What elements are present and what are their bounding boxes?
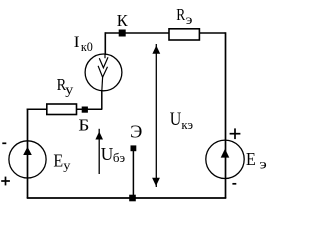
wire base horizontal from resistor Rу to vertical stub [77,108,103,110]
voltage source Eу circle [9,141,46,178]
voltage source Eу label [53,151,71,173]
wire from current source bottom down to base wire [101,91,103,110]
voltage source Eу minus sign [2,142,6,144]
node К junction square [119,30,126,37]
voltage arrow U_кэ (double headed vertical) [152,44,160,187]
bottom rail junction square [129,195,136,202]
resistor Rу label [57,75,74,98]
svg-text:Б: Б [78,116,89,135]
node Э label [130,122,142,142]
voltage source Eу arrow (filled, up) [23,147,32,155]
wire left vertical (through Eу down to bottom rail) [27,109,29,199]
svg-text:к0: к0 [81,39,93,54]
svg-text:кэ: кэ [181,117,193,132]
svg-text:К: К [117,11,129,30]
svg-text:I: I [74,34,80,51]
svg-text:E: E [53,151,63,171]
svg-text:E: E [246,149,256,169]
node Б junction square [82,107,88,113]
wire from left rail to resistor Rу [27,108,47,110]
voltage source Eэ label [246,149,267,173]
resistor Rэ [169,29,199,40]
node Э terminal square [131,145,137,151]
current source I_к0 circle [85,54,122,91]
voltage source Eэ circle [206,140,244,178]
voltage source Eу plus sign [1,177,10,186]
svg-text:э: э [186,13,193,28]
resistor Rэ label [176,5,192,28]
svg-text:бэ: бэ [113,150,126,165]
voltage label U_бэ [101,144,126,165]
wire top-left horizontal from corner to resistor Rэ [106,32,170,34]
svg-text:Э: Э [130,122,142,142]
svg-text:у: у [65,83,73,98]
bottom rail wire [27,197,227,199]
current source I_к0 label [74,34,93,54]
svg-text:R: R [176,5,186,24]
svg-text:у: у [63,157,71,172]
wire from node Э down to bottom rail [132,151,134,198]
wire right vertical (top corner down to bottom rail, through Eэ) [225,32,227,198]
voltage source Eэ plus sign [230,128,241,139]
node К label [117,11,129,30]
wire from top-left corner down to current source I_к0 [104,32,106,55]
svg-text:U: U [170,109,182,130]
node Б label [78,116,89,135]
voltage label U_кэ [170,109,194,132]
current source I_к0 inner arrow (double chevron down) [98,55,108,92]
svg-text:U: U [101,144,114,164]
voltage source Eэ arrow (filled, up) [221,149,230,158]
resistor Rу [47,104,77,115]
wire from resistor Rэ to top-right corner [199,32,225,34]
voltage arrow U_бэ (points up) [95,129,103,174]
svg-text:э: э [259,158,266,173]
voltage source Eэ minus sign [232,183,236,185]
